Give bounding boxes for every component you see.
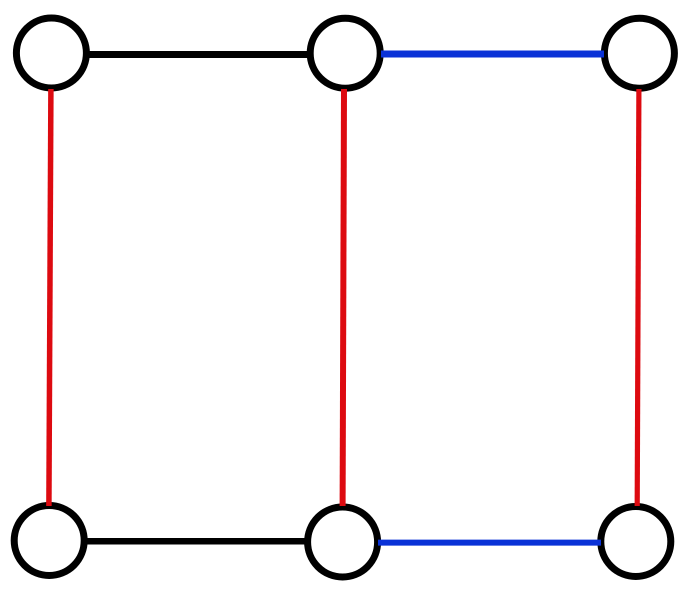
node C (top-right vertex) [604, 18, 674, 88]
node D (bottom-left vertex) [14, 506, 84, 576]
wire C-F (red edge, right) [637, 89, 639, 506]
node A (top-left vertex) [16, 18, 86, 88]
node F (bottom-right vertex) [601, 507, 671, 577]
wire E-F (blue edge, bottom) [378, 540, 601, 546]
node B (top-middle vertex) [310, 18, 380, 88]
wire B-C (blue edge, top) [381, 51, 604, 58]
wire D-E (black edge, bottom) [85, 538, 307, 545]
node E (bottom-middle vertex) [308, 507, 378, 577]
wire B-E (red edge, middle) [343, 89, 344, 506]
wire A-D (red edge, left) [49, 89, 51, 506]
wire A-B (black edge, top) [87, 51, 309, 58]
